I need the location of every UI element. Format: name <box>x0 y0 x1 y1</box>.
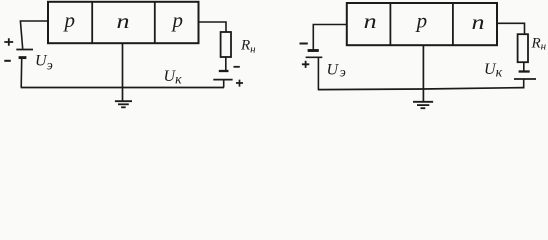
battery GB4 short plate (−) <box>519 70 530 72</box>
p-n junction divider (left) <box>91 2 93 43</box>
svg-text:p: p <box>415 9 428 33</box>
transistor body VT2 (n-p-n structure) <box>347 3 497 45</box>
battery GB3 long plate (+) <box>306 56 323 58</box>
wire battery GB3 to bottom rail <box>317 57 319 89</box>
n-p junction divider (right) <box>154 2 156 43</box>
battery GB4 long plate (+) <box>514 78 536 80</box>
battery GB2 short plate (−) <box>219 70 229 72</box>
resistor Rн (right load) <box>518 34 528 62</box>
svg-text:p: p <box>63 8 76 32</box>
wire base to ground <box>422 45 424 101</box>
svg-text:p: p <box>170 8 183 32</box>
battery GB1 minus label <box>4 60 11 62</box>
battery GB3 plus label <box>302 61 309 68</box>
battery GB2 minus label <box>234 66 240 68</box>
battery GB1 short plate (−) <box>19 56 27 59</box>
wire battery GB4 to bottom rail <box>523 79 525 89</box>
battery GB2 plus label <box>236 80 243 87</box>
bottom rail wire (right circuit) <box>318 88 524 90</box>
battery GB2 long plate (+) <box>213 79 232 81</box>
bottom rail wire (left circuit) <box>21 87 224 89</box>
p-n junction divider (right) <box>452 3 454 45</box>
svg-text:n: n <box>472 10 485 34</box>
battery GB3 minus label <box>300 43 308 45</box>
battery GB3 short plate (−) <box>308 49 319 52</box>
battery GB1 long plate (+) <box>16 49 33 51</box>
svg-text:n: n <box>364 9 377 33</box>
wire resistor to battery GB2 <box>225 57 227 71</box>
n-p junction divider (left) <box>389 3 391 45</box>
transistor body VT1 (p-n-p structure) <box>48 2 199 43</box>
wire emitter to battery GB3 <box>313 25 347 50</box>
wire emitter to battery GB1 <box>20 21 48 49</box>
wire base to ground <box>122 43 124 101</box>
resistor Rн (left load) <box>221 32 231 57</box>
wire collector to resistor <box>199 22 227 32</box>
ground (right circuit) <box>413 102 433 108</box>
ground (left circuit) <box>115 101 132 107</box>
wire battery GB2 to bottom rail <box>223 81 225 88</box>
wire battery GB1 to bottom rail <box>20 59 23 88</box>
svg-text:n: n <box>117 9 130 33</box>
wire resistor to battery GB4 <box>523 62 525 71</box>
battery GB1 plus label <box>4 38 13 45</box>
wire collector to resistor <box>497 23 525 34</box>
